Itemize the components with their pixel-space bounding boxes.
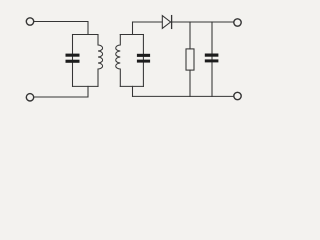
wire: TL terminal to tank1 top	[34, 22, 88, 35]
terminal TR (output top)	[234, 19, 241, 26]
wire: top rail drop through capacitor C3 to bottom rail	[211, 22, 213, 96]
wire: tank2 bottom edge	[120, 85, 143, 87]
diode D1 cathode bar	[171, 16, 173, 29]
inductor L1 (primary coil)	[98, 35, 103, 87]
wire: BL terminal to tank1 bottom	[34, 86, 88, 97]
capacitor C2 plates	[137, 54, 150, 57]
wire: top rail to diode anode	[133, 21, 163, 23]
wire: tank1 bottom edge	[73, 85, 99, 87]
inductor L2 (secondary coil)	[116, 35, 121, 87]
wire: tank2 top stub to top rail	[132, 22, 134, 35]
wire: top rail drop to resistor R1	[189, 22, 191, 49]
paper background	[0, 0, 249, 111]
wire: bottom rail to BR terminal	[133, 95, 234, 97]
wire: C2 leads	[142, 35, 144, 87]
resistor R1	[186, 49, 194, 70]
terminal BL (input bottom)	[26, 94, 33, 101]
wire: tank1 top edge	[73, 34, 99, 36]
capacitor C1 plates	[66, 54, 80, 57]
wire: resistor R1 to bottom rail	[189, 70, 191, 96]
terminal TL (input top)	[26, 18, 33, 25]
wire: diode cathode to TR terminal	[172, 21, 234, 23]
wire: tank2 top edge	[120, 34, 143, 36]
diode D1 triangle	[162, 16, 170, 29]
wire: tank2 bottom stub to bottom rail	[132, 86, 134, 96]
capacitor C3 plates	[205, 54, 219, 57]
terminal BR (output bottom)	[234, 92, 241, 99]
wire: C1 leads	[72, 35, 74, 87]
